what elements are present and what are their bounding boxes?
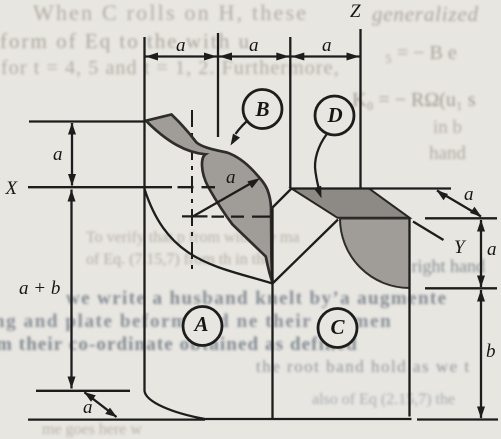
pentagon edge from D corner node down-left [273, 189, 292, 208]
bottom-left diagonal a dimension arrow [85, 392, 117, 417]
svg-text:a: a [226, 167, 236, 188]
ghost bleed-through text line 3 [1, 57, 340, 80]
region D gray parallelogram top face [292, 189, 410, 218]
right extension line y=419.5 [417, 418, 498, 420]
ghost row To verify [86, 229, 300, 247]
svg-text:a: a [464, 184, 474, 205]
ghost bleed-through text line 2 left [0, 29, 251, 54]
top-right depth a dimension diagonal arrow [437, 191, 481, 217]
leader from balloon B [236, 122, 247, 135]
ghost dark row 3 [0, 334, 358, 356]
svg-text:a: a [249, 35, 259, 56]
right plate edge x=410 [408, 218, 410, 417]
cam vertical dash-dot centerline [191, 110, 193, 270]
svg-text:b: b [486, 341, 496, 362]
ghost row root band [256, 357, 471, 377]
left a dimension line [71, 123, 73, 186]
region B gray lobe fill [146, 115, 273, 283]
top edge line y=188.5 from D to dimension region [292, 187, 452, 189]
ghost bleed-through formula right [352, 89, 476, 112]
balloon D [315, 96, 354, 135]
top dimension extension line x=144.5 and A plate left edge with bottom corner curve [145, 37, 412, 419]
ghost row right hand [390, 256, 485, 277]
a+b dimension line [70, 190, 72, 389]
45 degree edge from node up to disc corner [273, 220, 339, 284]
ghost faint fragment bottom left [42, 421, 142, 439]
ghost dark row 2 [0, 311, 392, 333]
svg-text:X: X [5, 178, 19, 199]
leader from balloon D [315, 135, 326, 193]
ghost row of Eq [86, 251, 271, 269]
balloon B [243, 90, 282, 129]
ghost bleed-through text line 1 [33, 0, 308, 26]
svg-text:a: a [487, 239, 497, 260]
svg-text:a: a [176, 35, 186, 56]
svg-text:A: A [193, 312, 209, 336]
right b dimension line [480, 290, 482, 418]
svg-text:Z: Z [350, 1, 361, 22]
Y axis diagonal [413, 222, 444, 241]
ghost fragment right [433, 117, 462, 139]
Z axis line [359, 29, 361, 188]
right extension line y=218 [425, 217, 497, 219]
X axis line [28, 186, 215, 188]
svg-text:D: D [327, 103, 343, 127]
svg-text:Y: Y [454, 237, 467, 258]
svg-text:a + b: a + b [19, 278, 60, 299]
ghost faint row bottom [312, 391, 455, 409]
ghost bleed-through text line 2 right [385, 42, 457, 65]
balloon C [318, 309, 357, 348]
svg-text:B: B [255, 97, 270, 121]
short horizontal line above bottom-left a arrow [36, 390, 130, 392]
top dimension extension line x=290 down to D corner [289, 37, 291, 188]
ghost dark row 1 [66, 288, 448, 310]
svg-text:C: C [331, 315, 346, 339]
balloon A [183, 307, 222, 346]
dashed horizontal line right of center [212, 215, 271, 217]
big arc top boundary of region A [145, 189, 273, 284]
bottom base line [28, 418, 205, 420]
svg-text:a: a [322, 35, 332, 56]
cam radius arrow a [193, 183, 251, 216]
A/C boundary vertical line [271, 208, 273, 419]
svg-text:a: a [53, 144, 63, 165]
cam center cross horizontal bar [182, 215, 208, 217]
gray quarter disc on C plate [340, 219, 410, 289]
right a dimension line [480, 220, 482, 287]
ghost fragment right 2 [429, 143, 466, 165]
top dimension extension line x=218 [217, 33, 219, 137]
top dimension line a a a [145, 55, 361, 57]
top dim arrowheads [146, 53, 360, 61]
right extension line y=288.5 [425, 287, 497, 289]
svg-text:a: a [83, 397, 93, 418]
left horizontal extension line y=121.5 [29, 120, 145, 122]
